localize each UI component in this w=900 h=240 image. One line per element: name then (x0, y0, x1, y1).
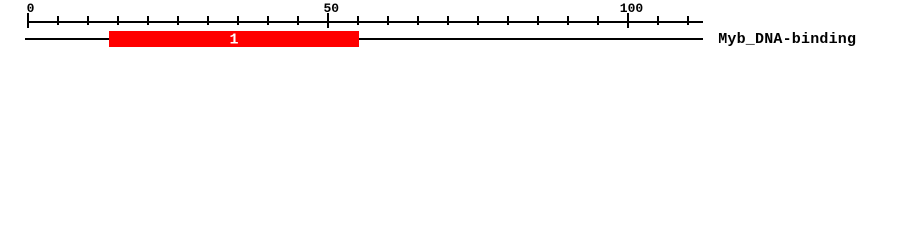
svg-text:1: 1 (229, 32, 238, 49)
minor tick 85 (537, 16, 539, 25)
minor tick 70 (447, 16, 449, 25)
ruler baseline (27, 21, 703, 23)
minor tick 10 (87, 16, 89, 25)
minor tick 30 (207, 16, 209, 25)
minor tick 90 (567, 16, 569, 25)
svg-text:Myb_DNA-binding: Myb_DNA-binding (718, 31, 856, 48)
minor tick 35 (237, 16, 239, 25)
major tick 50 (327, 13, 329, 28)
minor tick 105 (657, 16, 659, 25)
minor tick 5 (57, 16, 59, 25)
minor tick 110 (687, 16, 689, 25)
minor tick 45 (297, 16, 299, 25)
minor tick 15 (117, 16, 119, 25)
svg-text:0: 0 (27, 1, 35, 16)
svg-text:100: 100 (620, 1, 644, 16)
minor tick 80 (507, 16, 509, 25)
minor tick 60 (387, 16, 389, 25)
minor tick 20 (147, 16, 149, 25)
minor tick 25 (177, 16, 179, 25)
minor tick 75 (477, 16, 479, 25)
domain box 1 (109, 31, 359, 47)
minor tick 65 (417, 16, 419, 25)
minor tick 55 (357, 16, 359, 25)
sequence line (25, 38, 703, 40)
svg-text:50: 50 (323, 1, 339, 16)
minor tick 40 (267, 16, 269, 25)
major tick 100 (627, 13, 629, 28)
major tick 0 (27, 13, 29, 28)
minor tick 95 (597, 16, 599, 25)
